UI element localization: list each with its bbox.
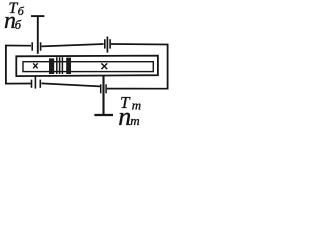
coupling M2 left tick	[104, 39, 106, 48]
inner gear box	[23, 62, 153, 72]
svg-text:б: б	[15, 18, 22, 32]
coupling M2 right tick	[109, 39, 111, 48]
coupling M4 right tick	[105, 84, 107, 93]
gear mesh hatch line 3	[61, 57, 63, 74]
coupling M2 centre flange	[106, 37, 108, 53]
coupling M3 centre stub shaft	[34, 76, 36, 89]
loop wire top-right	[111, 43, 169, 46]
input shaft vertical	[37, 16, 39, 54]
gear mesh block right bar	[66, 58, 71, 74]
loop wire bottom-right	[107, 88, 169, 90]
output shaft end bar	[94, 114, 113, 116]
svg-text:б: б	[18, 4, 25, 18]
svg-text:т: т	[132, 98, 141, 113]
output shaft vertical	[102, 76, 104, 115]
gear mesh hatch line 2	[59, 57, 61, 74]
coupling M1 left tick	[31, 42, 33, 50]
gear Z1 cross stroke 1	[33, 63, 38, 68]
loop wire right vertical	[167, 44, 169, 90]
loop wire top-middle	[42, 44, 104, 46]
gear mesh block left bar	[49, 58, 54, 74]
gear Z2 cross stroke 2	[101, 63, 107, 69]
loop wire top-left arm	[5, 45, 31, 47]
gear Z1 cross stroke 2	[33, 63, 38, 68]
svg-text:т: т	[130, 113, 139, 128]
loop wire left vertical	[5, 45, 7, 84]
coupling M4 left tick	[100, 84, 102, 93]
coupling M1 right tick	[40, 42, 42, 50]
gear mesh hatch line 1	[56, 57, 58, 74]
coupling M3 left tick	[31, 80, 33, 88]
coupling M3 right tick	[39, 80, 41, 88]
loop wire bottom-left arm	[5, 83, 31, 85]
loop wire bottom-middle	[41, 83, 100, 86]
input shaft end bar	[31, 15, 44, 17]
gearbox housing	[16, 56, 158, 77]
gear Z2 cross stroke 1	[101, 63, 107, 69]
